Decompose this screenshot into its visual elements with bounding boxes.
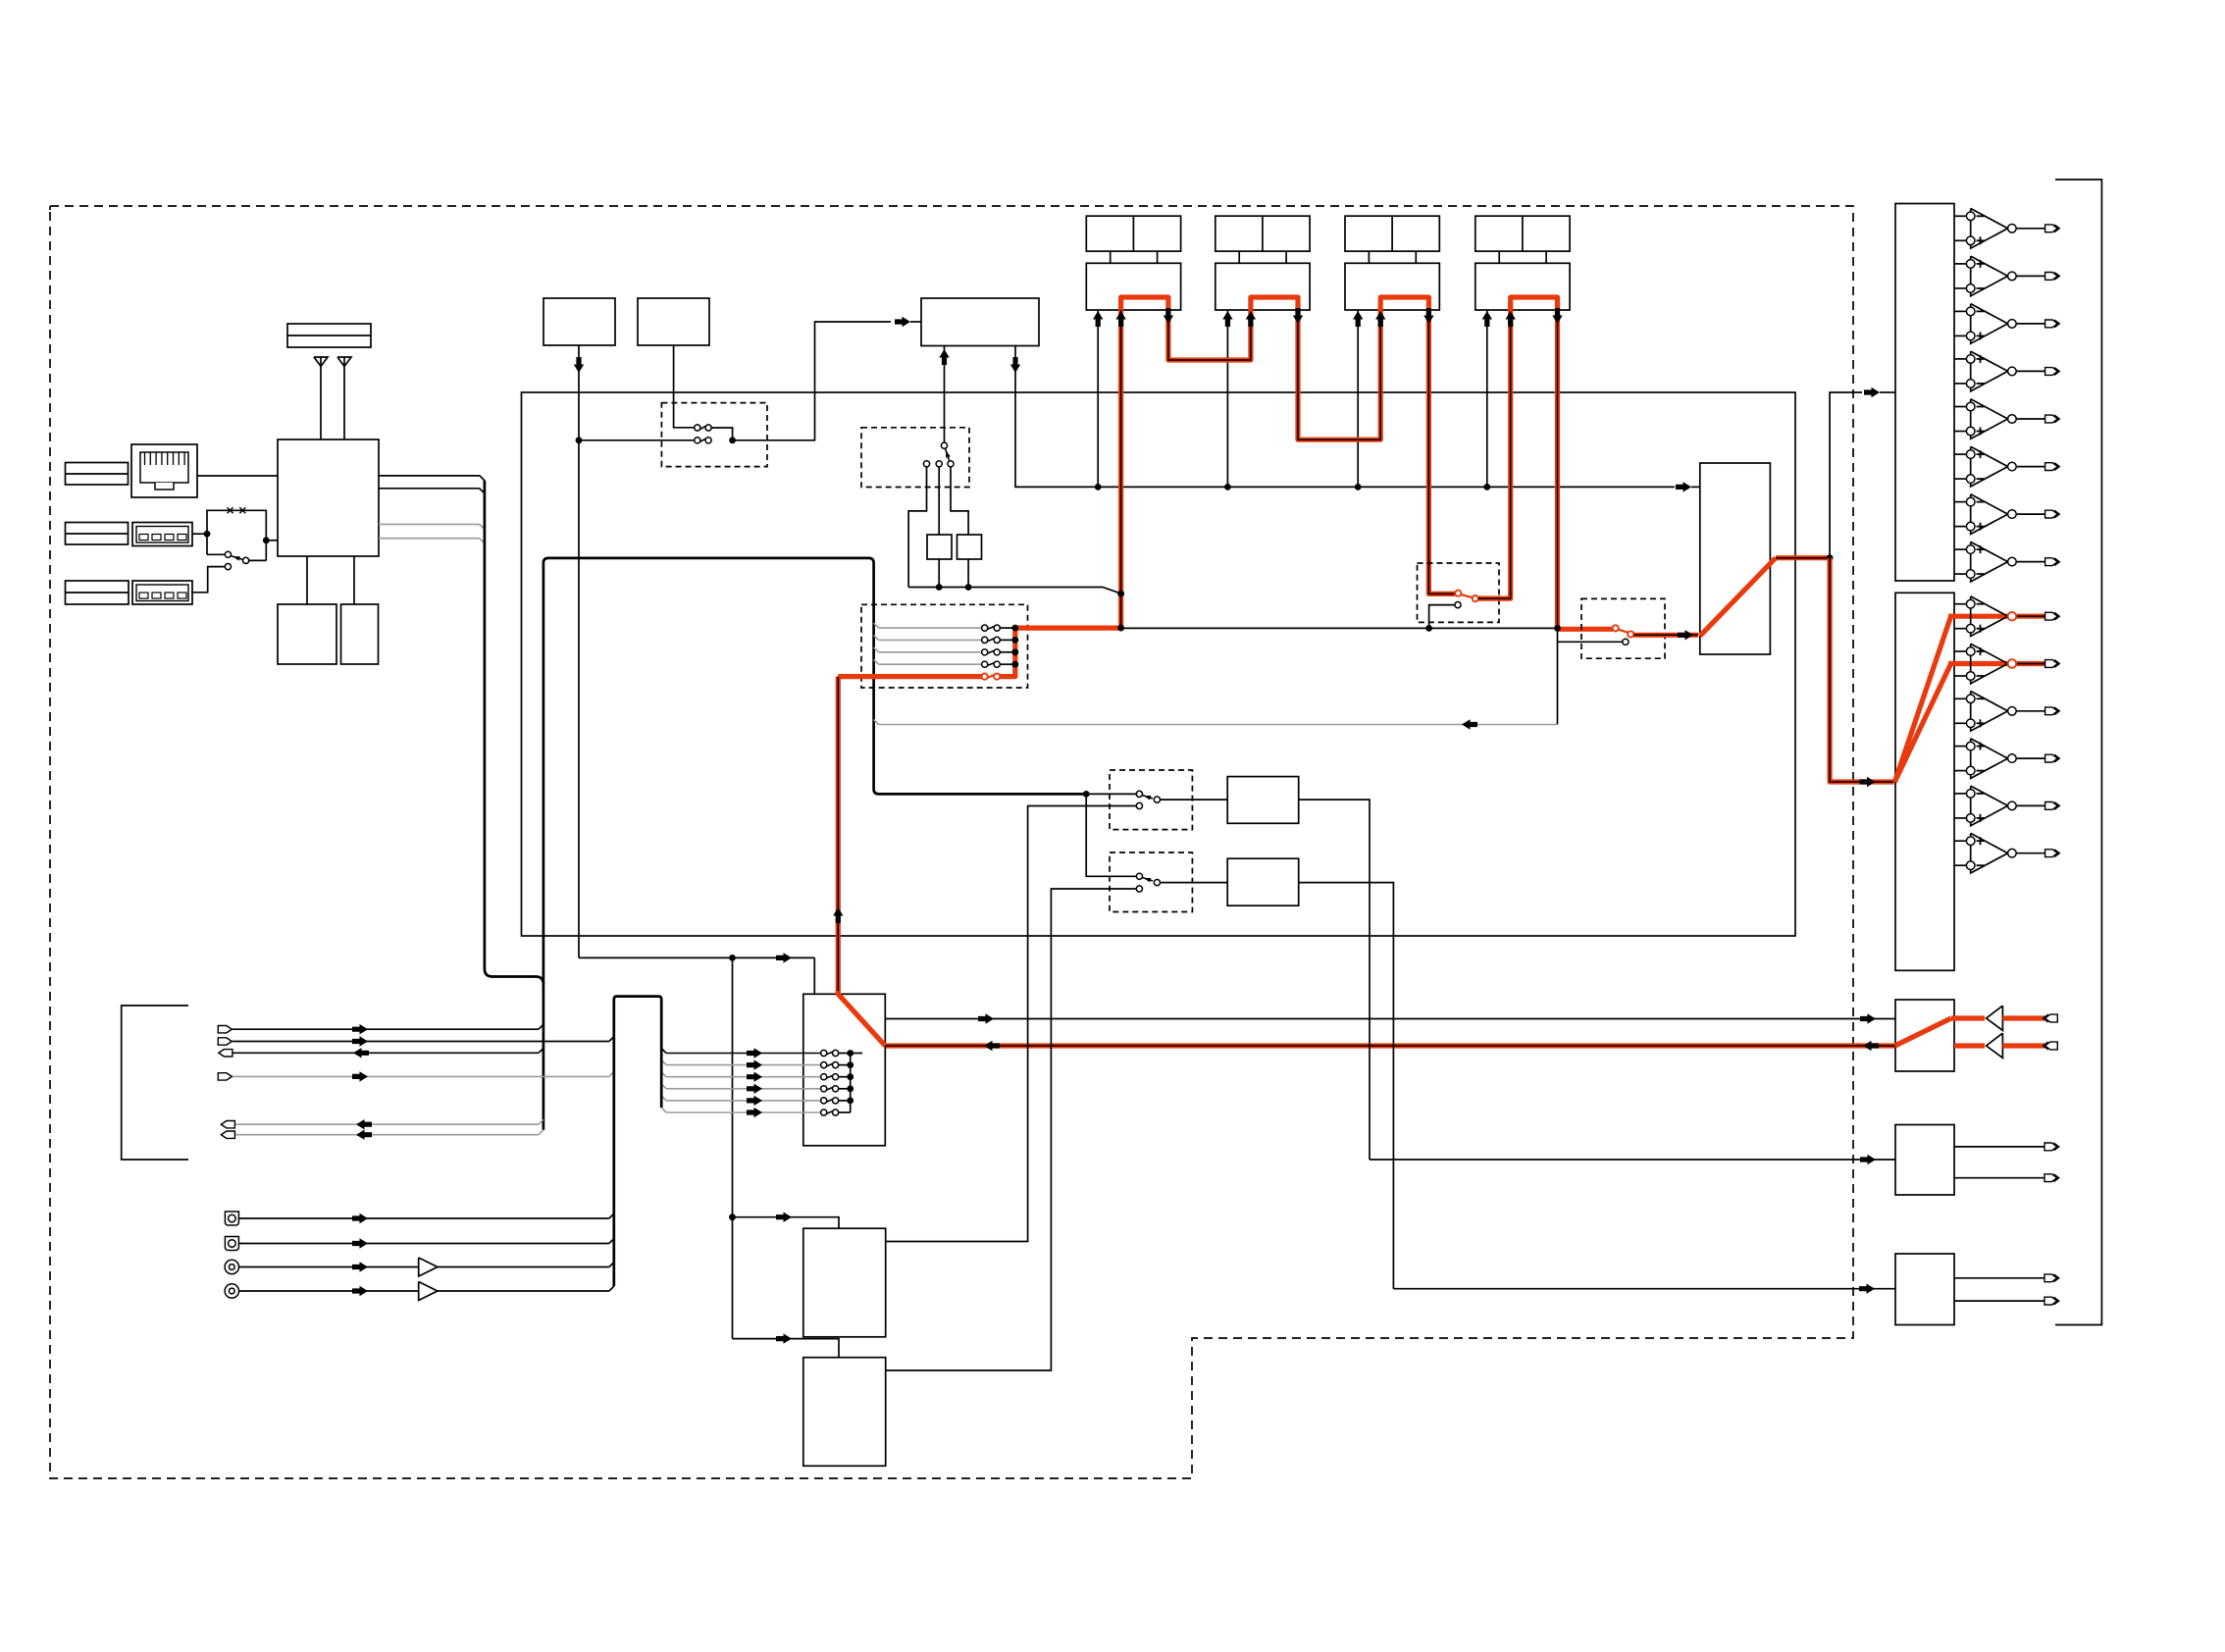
group3 top box	[1345, 216, 1439, 251]
group2 arrow up	[1222, 311, 1232, 327]
switch SW2a contact L	[695, 425, 700, 431]
switch SW9 row4 contact L	[821, 1086, 827, 1092]
wire down bus	[1557, 628, 1559, 724]
wire B3 port2 down	[1015, 346, 1675, 488]
switch S1 contact C	[225, 564, 231, 570]
dashed switch box SW5	[1581, 598, 1665, 658]
switch SW9 row6 contact L	[821, 1110, 827, 1115]
node bus SW4	[1425, 625, 1432, 632]
USB connector J5	[132, 581, 192, 604]
arrow into DAC	[1864, 387, 1880, 397]
arrow into DSP2	[776, 1333, 792, 1343]
aux output block B9	[1895, 1254, 1954, 1325]
wire SW6 row1 out	[1000, 627, 1015, 629]
wire B9 out2	[1954, 1300, 2044, 1302]
wire B12 out to B8	[1299, 800, 1370, 1160]
wire DSP2 out	[886, 889, 1137, 1370]
node SW6 collector row4 overlay	[1011, 661, 1018, 668]
switch SW6 row3 contact L	[982, 649, 988, 655]
wire B8 out1	[1954, 1146, 2044, 1148]
output jack CN6	[2044, 1297, 2057, 1305]
line input block B7	[1895, 1000, 1954, 1071]
wire O3 to buffer	[239, 1266, 419, 1268]
block B13	[1227, 858, 1299, 905]
node B4 out	[1827, 554, 1834, 561]
arrow red into level block	[1678, 630, 1693, 640]
arrow O4	[352, 1286, 368, 1296]
arrow P4	[352, 1071, 368, 1081]
wire SW9 row4 out	[839, 1088, 851, 1090]
node SW6 collector row1 overlay	[1011, 625, 1018, 632]
wire U32 to riser	[438, 1266, 609, 1268]
red wire inside B4 (diagonal)	[1700, 558, 1776, 637]
DSP block B10	[803, 1228, 886, 1337]
node bus group4 overlay	[1554, 625, 1561, 632]
group2 wire to rail	[1226, 310, 1228, 487]
red wire riser into matrix	[838, 987, 885, 1046]
group2 top box	[1216, 216, 1310, 251]
wire matrix to line-in block	[885, 1018, 1895, 1020]
switch SW6 row1 blade	[987, 627, 994, 630]
switch SW7 pole	[1136, 791, 1142, 797]
wire arrow to level block	[1691, 486, 1700, 488]
RCA connector O4	[225, 1284, 238, 1298]
arrow return left	[1462, 719, 1477, 729]
group2 link wires	[1238, 251, 1240, 263]
wire arrow to B3	[910, 321, 921, 323]
op-amp U22 (amp out 3)	[1954, 697, 1966, 699]
node SW6 collector row2 overlay	[1011, 637, 1018, 644]
wire pot rail to red node	[908, 588, 1121, 594]
group4 link wires	[1498, 251, 1500, 263]
input jack CN1	[2045, 1014, 2058, 1022]
node rail group3	[1355, 484, 1362, 490]
arrow O1	[352, 1213, 368, 1223]
switch SW2b contact L	[695, 438, 700, 443]
wire SW2b in	[579, 439, 695, 441]
wire control to DSP2	[733, 1339, 840, 1358]
switch SW2a blade	[700, 426, 706, 429]
wire SW6 row3 in	[879, 651, 982, 653]
wire arrow to DAC	[1880, 391, 1895, 393]
node R1 rail	[936, 584, 943, 591]
switch SW7 blade	[1142, 796, 1153, 800]
switch SW9 row5 contact L	[821, 1098, 827, 1104]
wire control down	[732, 957, 734, 1338]
dashed switch box SW8	[1110, 852, 1192, 912]
wire O1 to riser	[239, 1217, 609, 1219]
node SW9 row1	[847, 1050, 854, 1057]
arrow O2	[352, 1238, 368, 1248]
wire O4 to buffer	[239, 1290, 419, 1292]
node SW9 row2	[847, 1061, 854, 1068]
block B1	[543, 298, 615, 345]
group3 arrow up	[1353, 311, 1363, 327]
wire P1 to harness	[233, 1028, 539, 1030]
block B2	[638, 298, 709, 345]
switch SW9 row3 contact R	[833, 1074, 839, 1080]
red path group4 loop	[1511, 297, 1558, 312]
node red/mute-bus junction	[1117, 625, 1124, 632]
switch SW3 contact 3	[948, 461, 954, 467]
wire node up to DAC	[1830, 392, 1862, 558]
wire SW9 row1 out	[839, 1053, 851, 1055]
red wire into amp block	[1859, 779, 1894, 784]
red wire SW4 to group4	[1478, 310, 1511, 598]
arrow matrix feed 4	[747, 1084, 762, 1094]
switch SW5 alt contact	[1623, 639, 1629, 645]
output jack CN3	[2044, 1143, 2057, 1151]
wire P6 to harness	[235, 1134, 539, 1136]
switch SW9 row6 blade	[826, 1111, 833, 1114]
wire to B9	[1393, 1288, 1895, 1290]
arrow B3 port1 up	[939, 349, 949, 365]
main harness bus	[543, 558, 1086, 1130]
switch SW3 pole	[941, 442, 947, 448]
wire ANT2 to wireless module	[343, 367, 345, 440]
wire SW3 c3 down	[951, 467, 968, 535]
red wire U30 to jack	[2002, 1015, 2044, 1020]
plug P1	[218, 1026, 232, 1033]
node rail group4	[1483, 484, 1490, 490]
buffer amp U32	[419, 1258, 438, 1276]
input matrix block B14	[803, 994, 886, 1146]
DAC block B5	[1895, 204, 1954, 582]
wire S1 contact B to common B	[249, 559, 267, 561]
op-amp U17 (DAC out 8)	[1954, 548, 1966, 550]
red wire source riser	[836, 677, 841, 989]
red wire inside B7 diagonal	[1895, 1018, 1951, 1046]
switch SW8 pole	[1136, 873, 1142, 879]
wire matrix feed 4	[666, 1088, 821, 1090]
wire harness to SW7 pivot	[1086, 793, 1136, 795]
switch SW6 row3 blade	[987, 650, 994, 653]
wire S1 loop (ferrite marks)	[207, 510, 266, 541]
switch SW9 row4 blade	[826, 1087, 833, 1090]
op-amp U20 (amp out 1)	[1954, 603, 1966, 605]
wire SW2a out	[711, 428, 732, 438]
red wire group3 to SW4	[1428, 310, 1455, 594]
wire U33 to riser	[438, 1290, 609, 1292]
node SW6 collector row3 overlay	[1011, 648, 1018, 655]
sub-module U3	[341, 604, 379, 664]
wire mute bus	[1121, 627, 1429, 629]
ferrite mark FB1	[228, 507, 233, 513]
optical connector O2	[225, 1237, 238, 1251]
buffer U31 (left)	[1987, 1033, 2003, 1058]
red wire group4 right leg	[1555, 310, 1560, 628]
node bus group4	[1554, 625, 1561, 632]
switch SW9 row2 contact R	[833, 1062, 839, 1068]
switch SW6 row2 contact R	[994, 637, 1000, 643]
wire SW6 row2 in	[879, 639, 982, 641]
node control branch	[729, 955, 736, 961]
wire B3 port1 down	[944, 346, 946, 443]
matrix feed riser	[614, 997, 661, 1287]
arrow P5	[356, 1119, 372, 1129]
wire SW7 out	[1161, 799, 1228, 800]
wire SW9 row2 out	[839, 1064, 851, 1066]
wire SW5 alt to down bus	[1558, 641, 1623, 643]
red wire B7 row2	[1954, 1043, 1985, 1048]
wire SW9 row5 out	[839, 1100, 851, 1102]
red wire U31 to jack	[2002, 1043, 2044, 1048]
node harness SW7	[1083, 791, 1090, 798]
plug P4	[218, 1073, 232, 1080]
switch SW3 contact 1	[923, 461, 929, 467]
arrow matrix feed 5	[747, 1096, 762, 1106]
switch SW2a contact R	[705, 425, 711, 431]
node SW6 row4	[1011, 661, 1018, 668]
switch SW6 row5 blade (red)	[987, 675, 994, 678]
red wire inside B6 diag1	[1894, 616, 1950, 782]
op-amp U16 (DAC out 7)	[1954, 501, 1966, 503]
op-amp U10 (DAC out 1)	[1954, 215, 1966, 217]
connector header J4	[66, 523, 129, 545]
wire R1 down	[938, 559, 940, 588]
node control DSP1	[729, 1213, 736, 1220]
wire SW2 to B3	[735, 322, 891, 440]
switch SW4 pole (red)	[1455, 591, 1461, 596]
connector group bracket	[122, 1006, 188, 1160]
wire matrix feed 5	[666, 1100, 821, 1102]
USB connector J3	[132, 523, 192, 546]
group1 top box	[1086, 216, 1180, 251]
node S1 common A	[204, 531, 211, 538]
dashed switch box SW3	[861, 428, 969, 488]
wire S1 to U1	[266, 540, 278, 542]
red wire SW6 collector	[1000, 628, 1120, 677]
wire to B8	[1370, 1159, 1895, 1161]
group1 link wires	[1110, 251, 1112, 263]
switch SW6 row4 contact R	[994, 661, 1000, 667]
node B1/SW2 junction	[576, 437, 583, 443]
wire matrix feed 3	[666, 1076, 821, 1078]
switch SW9 row2 contact L	[821, 1062, 827, 1068]
node rail group1	[1095, 484, 1102, 490]
switch SW2b contact R	[705, 438, 711, 443]
node SW9 row5	[847, 1098, 854, 1105]
group4 wire to rail	[1486, 310, 1488, 487]
node rail/red junction	[1117, 591, 1124, 597]
arrow matrix feed 2	[747, 1059, 762, 1069]
RCA connector O3	[225, 1260, 238, 1273]
op-amp U12 (DAC out 3)	[1954, 310, 1966, 312]
wire SW9 collector	[850, 1054, 852, 1113]
aux output block B8	[1895, 1125, 1954, 1196]
optical connector O1	[225, 1212, 238, 1225]
amplifier block B6	[1895, 593, 1954, 970]
arrow into B9	[1859, 1284, 1875, 1294]
group arrows red legs	[1115, 311, 1125, 327]
wire R2 down	[967, 559, 969, 588]
node SW6 row2	[1011, 637, 1018, 644]
red wire SW6 row5 in	[838, 674, 981, 679]
red path group2 loop	[1251, 297, 1298, 312]
op-amp U15 (DAC out 6)	[1954, 453, 1966, 455]
red path group1 loop	[1121, 297, 1168, 312]
switch SW9 row1 contact R	[833, 1050, 839, 1056]
switch SW8 blade	[1142, 877, 1153, 881]
arrow matrix feed 3	[747, 1072, 762, 1082]
jack P3	[219, 1050, 233, 1057]
group1 wire to rail	[1097, 310, 1099, 487]
switch SW3 blade	[946, 448, 950, 460]
switch SW5 blade (red)	[1618, 630, 1630, 634]
switch SW4 blade (red)	[1461, 594, 1473, 597]
switch SW9 row4 contact R	[833, 1086, 839, 1092]
wire B1 down	[578, 345, 580, 957]
bus wire U1 out 3	[379, 523, 480, 525]
arrow control to matrix	[776, 953, 792, 962]
wire U1 to U3	[353, 556, 355, 604]
op-amp U21 (amp out 2)	[1954, 650, 1966, 652]
block B3 (clock/PLL)	[921, 298, 1039, 346]
node SW9 row3	[847, 1073, 854, 1080]
wire SW9 row6 out	[839, 1111, 851, 1113]
wire ANT1 to wireless module	[320, 367, 322, 440]
dashed switch box SW4	[1418, 563, 1500, 622]
group3 link wires	[1368, 251, 1370, 263]
antenna terminal block	[287, 324, 371, 347]
wire SW6 row1 in	[879, 627, 982, 629]
antenna ANT2	[337, 357, 351, 367]
op-amp U14 (DAC out 5)	[1954, 406, 1966, 408]
wire harness to SW8	[1086, 794, 1136, 876]
arrow into B8	[1860, 1155, 1876, 1164]
switch SW6 row2 contact L	[982, 637, 988, 643]
red wire group1-group2 link	[1168, 310, 1251, 360]
red path group3 loop	[1380, 297, 1428, 312]
arrow matrix feed 6	[747, 1108, 762, 1117]
op-amp U24 (amp out 5)	[1954, 793, 1966, 795]
node SW6 row1	[1011, 625, 1018, 632]
switch SW9 row1 blade	[826, 1052, 833, 1055]
wire matrix feed 6	[666, 1111, 821, 1113]
switch SW6 row5 contact L (red)	[982, 674, 988, 680]
wire return to harness	[879, 724, 1558, 726]
group4 arrow up	[1482, 311, 1492, 327]
dashed switch box SW7	[1110, 770, 1192, 830]
arrow P6	[356, 1130, 372, 1140]
antenna ANT1	[314, 357, 328, 367]
large processing block boundary	[522, 392, 1796, 936]
wire B9 out1	[1954, 1277, 2044, 1279]
op-amp U13 (DAC out 4)	[1954, 358, 1966, 360]
dashed input selector box SW6	[861, 604, 1028, 688]
node R2 rail	[965, 584, 972, 591]
resistor R2 (pot)	[957, 535, 982, 559]
red wire SW5 to level block	[1633, 633, 1698, 638]
switch SW2b blade	[700, 439, 706, 441]
switch SW6 row3 contact R	[994, 649, 1000, 655]
switch SW4 alt contact	[1455, 602, 1461, 608]
jack P6	[221, 1131, 234, 1138]
switch SW5 pole (red)	[1613, 625, 1619, 631]
switch SW6 row4 contact L	[982, 661, 988, 667]
group4 lower box	[1475, 263, 1570, 310]
wire SW4 alt to bus	[1429, 605, 1455, 626]
red wire inside B6 diag2	[1894, 664, 1950, 783]
switch SW6 row2 blade	[987, 639, 994, 642]
arrow red into amp	[1860, 777, 1876, 787]
switch SW9 row6 contact R	[833, 1110, 839, 1115]
switch SW6 row1 contact L	[982, 625, 988, 631]
input jack CN2	[2045, 1042, 2058, 1050]
wire S1 pole branch	[206, 534, 208, 554]
RJ45 ethernet jack J1	[131, 444, 197, 497]
buffer U30 (left)	[1987, 1006, 2003, 1030]
wire SW6 row2 out	[1000, 639, 1015, 641]
arrow P1	[352, 1024, 368, 1034]
wire B1 line to matrix	[579, 956, 814, 958]
dashed switch box SW2	[661, 403, 767, 467]
wire matrix feed 1	[666, 1053, 821, 1055]
red wire group1 left leg	[1118, 310, 1123, 628]
arrow matrix feed 1	[747, 1048, 762, 1058]
arrow source riser up	[833, 907, 843, 923]
node SW2 out junction	[729, 437, 736, 443]
node SW6 row3	[1011, 648, 1018, 655]
arrow into level block	[1676, 482, 1691, 491]
wire SW6 row4 out	[1000, 663, 1015, 665]
op-amp U23 (amp out 4)	[1954, 746, 1966, 748]
block B12	[1227, 777, 1299, 824]
resistor R1 (pot)	[927, 535, 952, 559]
jack P5	[221, 1121, 234, 1128]
group3 lower box	[1345, 263, 1439, 310]
node SW9 row4	[847, 1085, 854, 1092]
switch SW4 throw (red)	[1473, 595, 1478, 601]
wire SW6 row3 out	[1000, 651, 1015, 653]
arrow matrix out	[978, 1013, 994, 1023]
wire SW3 c1 down	[908, 467, 926, 588]
switch SW7 throw	[1154, 797, 1160, 802]
switch SW9 row3 blade	[826, 1075, 833, 1078]
switch SW9 row5 contact R	[833, 1098, 839, 1104]
wireless/network module U1	[278, 439, 379, 556]
red wire B7 row1	[1951, 1015, 1985, 1020]
node rail group2	[1224, 484, 1231, 490]
buffer amp U33	[419, 1282, 438, 1301]
bus wire U1 out 2	[379, 488, 480, 490]
arrow P3	[353, 1048, 369, 1058]
wire J3 to switch S1	[192, 533, 207, 535]
wire P2 to riser	[233, 1041, 609, 1043]
switch SW9 row5 blade	[826, 1099, 833, 1102]
arrow B1 down	[574, 357, 584, 373]
connector header J6	[66, 581, 129, 604]
wire DSP1 out	[886, 806, 1137, 1242]
switch SW8 throw	[1154, 880, 1160, 886]
wire B13 out to B9	[1299, 883, 1394, 1289]
switch SW8 alt contact	[1136, 886, 1142, 892]
right output bracket	[2055, 180, 2101, 1325]
switch SW6 row1 contact R	[994, 625, 1000, 631]
output jack CN4	[2044, 1174, 2057, 1182]
red wire line-in return	[885, 1043, 1894, 1048]
switch S1 blade	[231, 556, 243, 560]
group1 lower box	[1086, 263, 1180, 310]
wire matrix feed 2	[666, 1064, 821, 1066]
wire J1 to U1	[197, 475, 278, 477]
switch SW3 contact 2	[936, 461, 942, 467]
red wire node down	[1830, 558, 1859, 782]
arrow O3	[352, 1262, 368, 1271]
switch SW9 row3 contact L	[821, 1074, 827, 1080]
arrow red return near B7	[1863, 1041, 1879, 1051]
node S1 common B	[263, 537, 270, 543]
